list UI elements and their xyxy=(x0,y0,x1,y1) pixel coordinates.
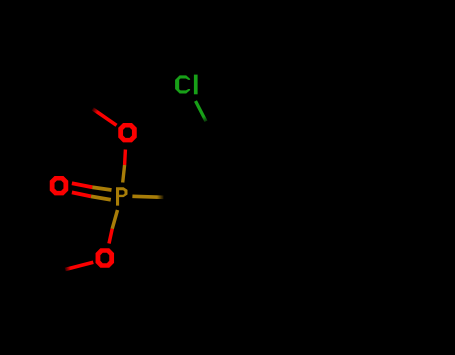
bond P-C1 (P-side olive half) xyxy=(132,196,163,197)
bond O1-P upper red half xyxy=(123,150,127,166)
bond P-O3 red half xyxy=(109,229,112,244)
bond O3-CH3 (methyl ester bottom, O-side half) xyxy=(65,262,93,269)
double bond P=O lower line red half xyxy=(72,192,91,196)
double bond P=O upper line olive half xyxy=(92,187,111,190)
bond C2-Cl (Cl-side green half) xyxy=(196,101,207,121)
atom Cl xyxy=(175,75,197,95)
atom P xyxy=(116,187,128,205)
atom O2 (phosphoryl oxygen) xyxy=(50,176,69,195)
double bond P=O upper line red half xyxy=(72,183,92,187)
bond O1-P lower olive half xyxy=(123,165,125,183)
bond O1-CH3 (methyl ester top, O-side half) xyxy=(93,109,117,125)
double bond P=O lower line olive half xyxy=(91,196,111,199)
atom O1 (top ester oxygen) xyxy=(118,123,137,142)
atom O3 (bottom ester oxygen) xyxy=(96,248,115,267)
bond P-O3 olive half xyxy=(112,210,117,229)
